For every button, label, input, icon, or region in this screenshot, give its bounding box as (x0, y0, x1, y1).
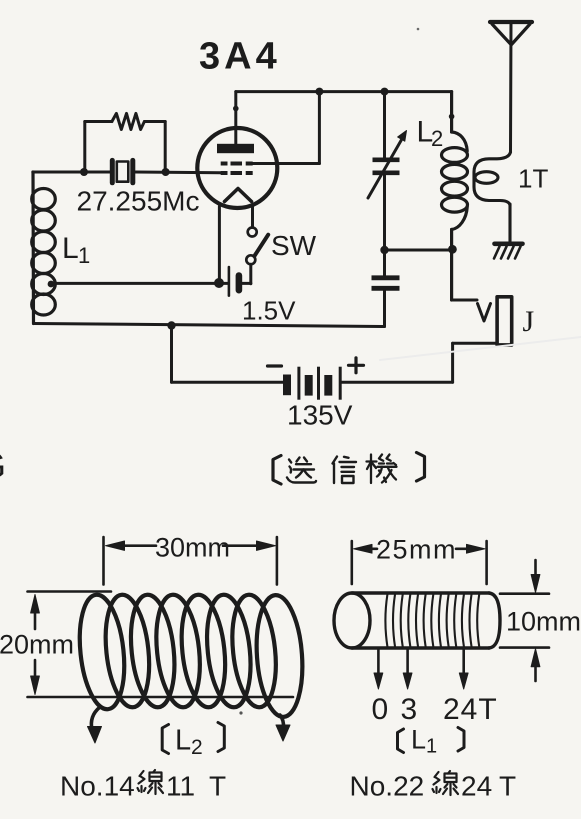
svg-text:SW: SW (271, 230, 317, 261)
ground (494, 244, 523, 259)
caption transmitter 送信機 (273, 453, 425, 485)
inductor L1 (schematic) (32, 172, 56, 324)
wire: grid lead from crystal to tube (135, 171, 220, 175)
antenna (490, 22, 532, 152)
svg-text:11: 11 (166, 771, 195, 802)
svg-text:No.22: No.22 (350, 771, 425, 802)
figure right: dimension 10mm (500, 560, 549, 681)
svg-text:L: L (411, 725, 426, 755)
variable capacitor VC (368, 92, 407, 250)
svg-text:G: G (0, 445, 6, 486)
winding turns on form (385, 595, 479, 647)
figure left: dimension 30mm (104, 537, 277, 585)
wire: plate lead up to B+ rail (234, 92, 237, 144)
svg-text:2: 2 (191, 736, 203, 759)
node filament/battery junction (214, 278, 224, 288)
wire: battery minus to ground bus (172, 326, 283, 383)
wire: jack sleeve to battery plus (342, 343, 498, 382)
coil form drawing L1 (cylinder) (334, 593, 500, 648)
node A (crystal left) (80, 168, 88, 176)
wire: screen grid to rail (253, 162, 320, 165)
wire: filament left lead (218, 207, 221, 284)
wire: tank bottom link (385, 249, 453, 252)
node B (crystal right) (162, 168, 170, 176)
wire: bottom ground bus (34, 324, 385, 327)
crystal X1 (112, 160, 133, 182)
node tank/L2 (448, 245, 457, 254)
label [L1] (398, 728, 465, 753)
svg-text:2: 2 (431, 126, 443, 151)
svg-text:No.14: No.14 (60, 771, 135, 802)
svg-text:T: T (499, 771, 516, 802)
tube filament (225, 189, 252, 202)
tube screen grid (dashed row 1) (221, 162, 253, 166)
tube V1 3A4 envelope (197, 128, 277, 208)
svg-text:1T: 1T (518, 164, 548, 194)
coil winding drawing L2 (75, 593, 307, 719)
battery BT2 135V (287, 367, 340, 400)
label minus (268, 364, 282, 367)
svg-text:1: 1 (426, 736, 437, 758)
jack J body (497, 297, 512, 345)
node tank/cap (380, 246, 388, 254)
kanji 送 (287, 458, 316, 483)
svg-text:1: 1 (78, 243, 90, 268)
svg-text:3: 3 (401, 693, 418, 726)
node ground bus (167, 321, 175, 329)
svg-text:24T: 24T (443, 693, 498, 726)
svg-text:25mm: 25mm (376, 535, 457, 565)
coupling coil 1T (474, 152, 511, 242)
scan speck bottom-left (239, 711, 242, 714)
node blob on plate lead (233, 106, 239, 112)
wire: L1 top to crystal (33, 171, 110, 174)
svg-text:J: J (523, 305, 535, 338)
tube plate (anode) (217, 144, 254, 153)
kanji 機 (367, 455, 397, 484)
figure right: dimension 25mm (352, 541, 487, 584)
wire: filament tap (L1 tap to battery) (50, 282, 228, 285)
svg-text:3A4: 3A4 (199, 36, 281, 78)
node tap on L1 (48, 281, 55, 288)
svg-text:20mm: 20mm (0, 630, 74, 660)
wire: L2 bottom to jack tip (452, 299, 477, 302)
node on rail (screen branch) (315, 88, 323, 96)
svg-text:T: T (209, 771, 226, 802)
jack tip spring contact V (478, 304, 491, 322)
inductor L2 (schematic) (442, 92, 468, 300)
svg-text:27.255Mc: 27.255Mc (77, 186, 200, 217)
resistor R1 (grid leak) (85, 113, 165, 172)
svg-text:L: L (175, 725, 191, 757)
kanji 線 (right caption) (433, 771, 459, 795)
svg-text:135V: 135V (287, 400, 353, 431)
svg-text:1.5V: 1.5V (242, 296, 296, 326)
svg-text:10mm: 10mm (506, 607, 581, 637)
node L2 top (449, 114, 455, 120)
svg-text:30mm: 30mm (155, 533, 230, 563)
faint scan streak right (380, 337, 581, 360)
tap arrows 0 3 24T (374, 650, 468, 689)
kanji 信 (333, 457, 357, 484)
svg-text:0: 0 (372, 693, 389, 726)
battery BT1 1.5V (229, 267, 251, 296)
svg-text:L: L (62, 232, 79, 265)
label plus (349, 358, 364, 373)
svg-text:24: 24 (461, 771, 492, 802)
node on rail (tank branch) (381, 88, 389, 96)
wire: top B+ rail (236, 90, 452, 93)
label [L2] (162, 723, 224, 754)
capacitor C1 (fixed) (372, 250, 400, 327)
switch SW (246, 207, 268, 284)
coil L2 lead-out left (88, 707, 102, 743)
kanji 線 (left caption) (138, 770, 164, 794)
tube control grid (dashed row 2) (221, 171, 253, 175)
coil L2 lead-out right (276, 715, 290, 741)
figure left: dimension 20mm (28, 592, 294, 698)
scan speck top (417, 28, 420, 31)
